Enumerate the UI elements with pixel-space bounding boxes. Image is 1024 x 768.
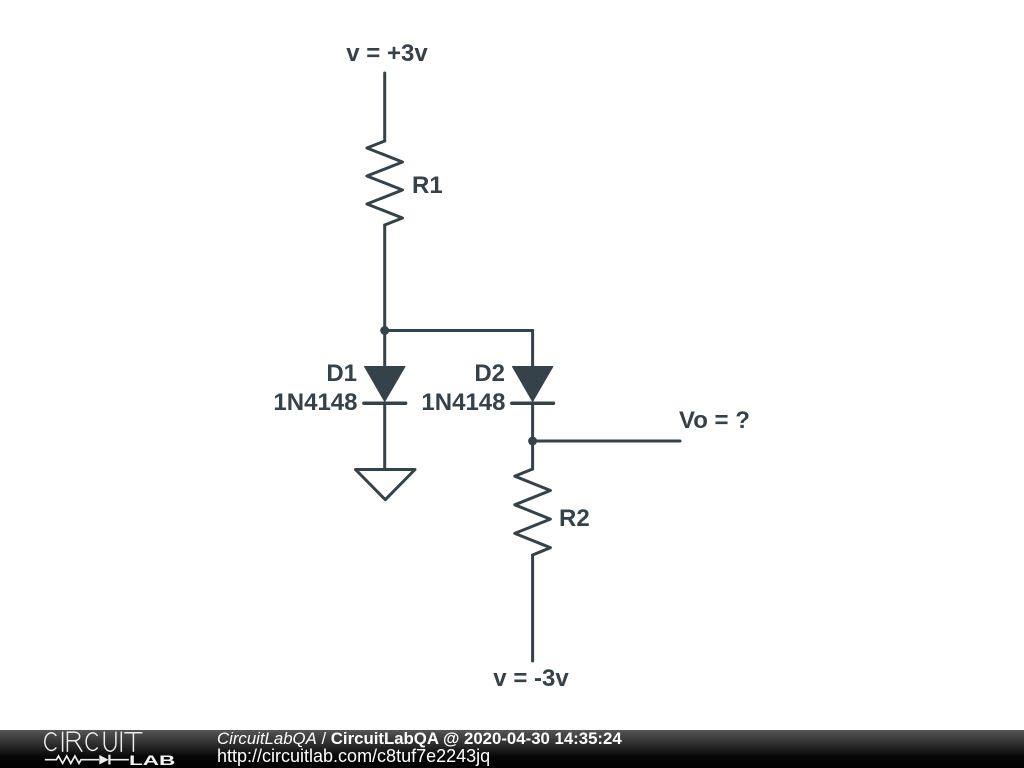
wire junction down to R2: [531, 441, 534, 469]
logo letter R: [67, 732, 81, 751]
svg-text:1N4148: 1N4148: [273, 389, 357, 416]
wire junction to Vo: [533, 440, 680, 443]
attribution text: [217, 730, 622, 765]
junction node dot (R1 / D1 / D2): [380, 326, 389, 335]
diode D1: [273, 360, 405, 416]
svg-text:v = -3v: v = -3v: [493, 665, 569, 692]
svg-text:LAB: LAB: [129, 752, 175, 768]
logo letter C: [45, 733, 56, 751]
svg-text:D2: D2: [474, 360, 505, 387]
svg-text:R2: R2: [559, 505, 590, 532]
wire junction down to D1 anode: [383, 331, 386, 368]
wire D1 cathode to ground: [383, 403, 386, 469]
svg-text:v = +3v: v = +3v: [346, 40, 428, 67]
resistor R1: [367, 141, 443, 225]
wire from junction to D2 branch: [385, 329, 533, 332]
svg-text:1N4148: 1N4148: [421, 389, 505, 416]
wire from R1 to node junction: [383, 225, 386, 331]
svg-text:D1: D1: [326, 360, 357, 387]
wire D2 cathode to output junction: [531, 403, 534, 441]
logo letter C: [86, 733, 97, 751]
svg-text:R1: R1: [412, 172, 443, 199]
wire from R2 to -3v flag: [531, 555, 534, 661]
footer attribution bar: [0, 730, 1024, 768]
ground symbol: [356, 470, 416, 500]
logo resistor squiggle: [45, 756, 99, 763]
resistor R2: [515, 469, 590, 555]
diode D2: [421, 360, 553, 416]
logo letter T: [125, 733, 142, 751]
logo diode symbol: [99, 755, 129, 765]
wire from +3v flag to R1: [383, 73, 386, 141]
wire down to D2 anode: [531, 331, 534, 368]
junction node dot (D2 / R2 / Vo): [528, 437, 537, 446]
logo letter I: [62, 732, 64, 751]
svg-text:Vo = ?: Vo = ?: [679, 407, 750, 434]
logo letter I: [120, 732, 122, 751]
CircuitLab logo: [0, 730, 190, 768]
logo letter U: [104, 732, 116, 751]
